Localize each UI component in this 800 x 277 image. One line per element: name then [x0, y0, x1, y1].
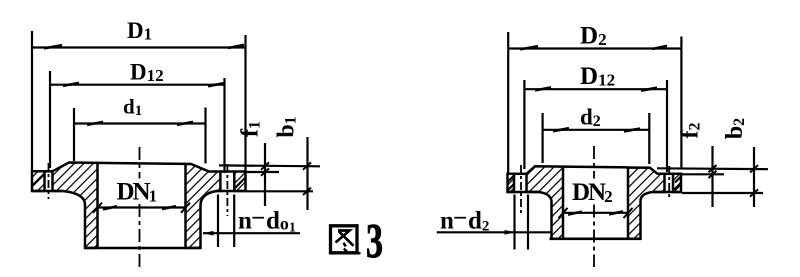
svg-text:n: n: [440, 208, 454, 235]
svg-text:3: 3: [366, 213, 383, 268]
svg-text:−: −: [453, 205, 467, 232]
svg-text:n: n: [238, 208, 252, 235]
svg-text:−: −: [251, 205, 265, 232]
